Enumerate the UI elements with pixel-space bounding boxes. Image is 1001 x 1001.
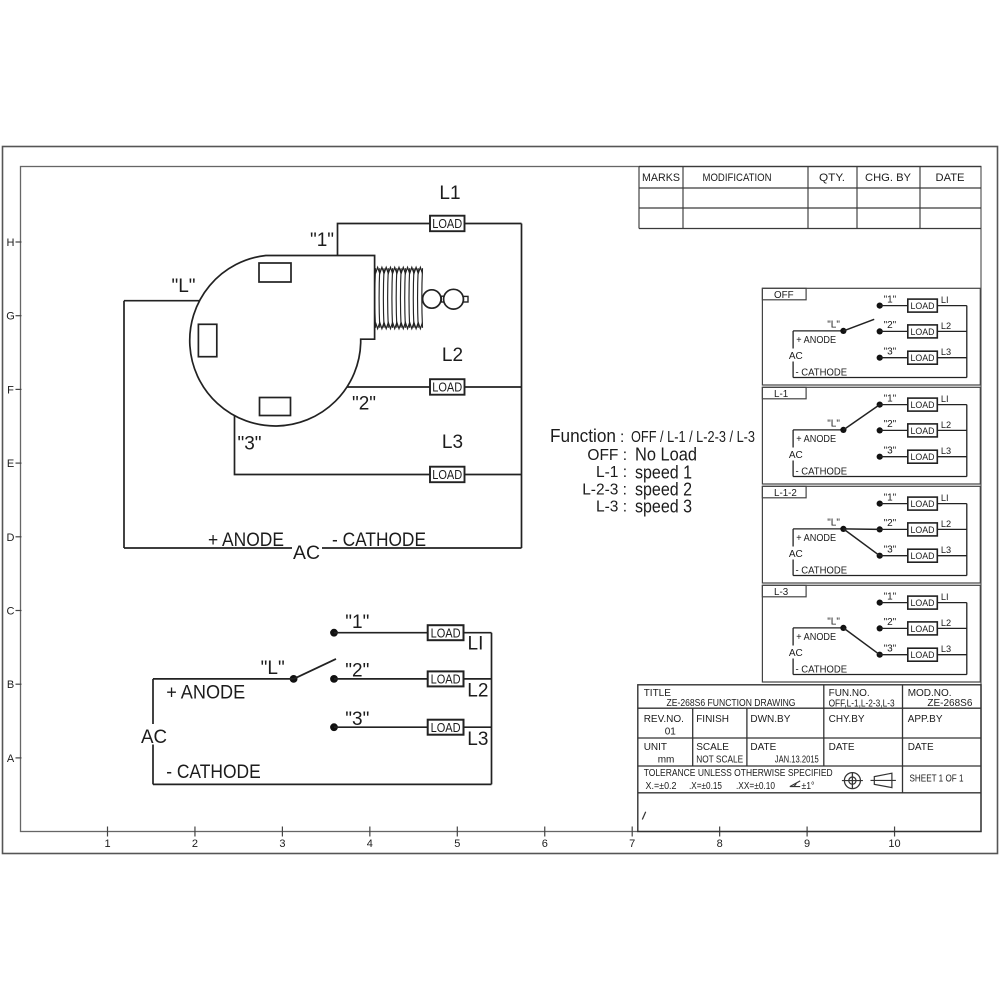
svg-text:LI: LI [941,493,949,503]
pull chain bead 2 [444,289,464,309]
label AC (main) [293,543,320,564]
panel L-3 : label "1" [884,591,897,602]
schematic: label L3 [467,729,488,750]
panel L-1-2 : wire load L3 to bus [937,555,967,557]
panel L-1-2 : load resistor L3 [908,549,938,562]
panel L-1 : wire load LI to bus [937,404,967,406]
panel L-1-2 : wire 3 to load [880,555,908,557]
svg-text:L-1: L-1 [774,389,788,400]
title block: UNIT cell [644,742,675,765]
svg-text:"3": "3" [884,545,897,556]
svg-text:ZE-268S6 FUNCTION DRAWING: ZE-268S6 FUNCTION DRAWING [667,698,796,709]
svg-text:L1: L1 [439,183,460,204]
revision table frame [639,167,981,229]
panel L-1-2 : label L3 [941,545,951,555]
wire: left vertical (anode side) [123,301,125,548]
svg-text:- CATHODE: - CATHODE [332,530,426,551]
function list text [550,426,755,517]
svg-text:- CATHODE: - CATHODE [796,367,848,378]
panel OFF : node L dot [840,328,846,334]
title block: REV.NO. cell [644,714,684,738]
schematic: label + ANODE [166,683,245,704]
panel L-1 : label "2" [884,419,897,430]
panel L-1-2 : wire load LI to bus [937,503,967,505]
wire load L1 to bus [465,223,522,225]
label L3 [442,432,463,453]
panel L-1-2 : label "1" [884,492,897,503]
panel L-1-2 : left wire lower [792,560,794,576]
angle tolerance symbol [790,781,800,787]
schematic: wire anode feed [153,678,294,680]
svg-text:FUN.NO.: FUN.NO. [829,688,870,699]
panel OFF : wire 2 to load [880,330,908,332]
panel OFF : wire 1 to load [880,305,908,307]
panel L-1 : wire load L3 to bus [937,456,967,458]
panel OFF : label "3" [884,347,897,358]
svg-text:LOAD: LOAD [911,598,935,609]
schematic: wire 2 to load [334,678,428,680]
panel L-1-2 : terminal 3 dot [877,553,883,559]
svg-text:LOAD: LOAD [432,380,462,395]
panel L-1 : label AC [789,450,803,461]
panel L-1-2 : label "2" [884,518,897,529]
panel L-1 : terminal 3 dot [877,454,883,460]
schematic: label "1" [345,612,369,633]
panel L-3 : load resistor LI [908,596,938,609]
panel OFF : switch arm [843,319,874,331]
svg-text:LOAD: LOAD [911,426,935,437]
svg-text:10: 10 [888,838,900,850]
svg-text:L2: L2 [467,681,488,702]
svg-text:L2: L2 [941,321,951,331]
svg-text:7: 7 [629,838,635,850]
panel L-1 : load resistor L2 [908,424,938,437]
wire: right bus (cathode return, main) [521,224,523,549]
panel L-3 : terminal 2 dot [877,625,883,631]
svg-text:+ ANODE: + ANODE [796,434,836,445]
title block: DATE cell (approved) [908,742,934,753]
svg-text:AC: AC [141,727,167,748]
svg-text:LOAD: LOAD [911,353,935,364]
label "2" [352,394,376,415]
svg-text:"2": "2" [884,518,897,529]
svg-text:01: 01 [665,727,677,738]
panel OFF : terminal 3 dot [877,355,883,361]
svg-text:±1°: ±1° [802,781,815,792]
state panel OFF : tab label [762,288,806,301]
svg-text:LOAD: LOAD [431,672,461,687]
panel L-1 : load resistor LI [908,398,938,411]
pull chain link [441,296,444,302]
svg-text:AC: AC [789,648,803,659]
svg-text:L-2-3 :: L-2-3 : [582,482,627,499]
svg-text:L3: L3 [941,446,951,456]
panel OFF : load resistor L2 [908,325,938,338]
svg-text:L-1-2: L-1-2 [774,488,797,499]
svg-text:LOAD: LOAD [911,525,935,536]
pull chain bead 1 [423,290,441,308]
panel OFF : bottom cathode wire [793,377,967,379]
threaded stem of switch [375,267,423,328]
svg-text:L2: L2 [941,618,951,628]
svg-text:A: A [7,753,15,765]
svg-text:LOAD: LOAD [432,216,462,231]
panel OFF : terminal 2 dot [877,328,883,334]
pull chain end nub [463,296,468,302]
svg-text:+ ANODE: + ANODE [796,335,836,346]
schematic: wire load L3 to bus [464,726,491,728]
panel OFF : label - CATHODE [796,367,848,378]
svg-text:DATE: DATE [908,742,934,753]
svg-text:"1": "1" [884,591,897,602]
svg-text:L-3: L-3 [774,587,789,598]
panel L-1 : left wire upper [792,430,794,448]
schematic: bottom cathode wire [153,783,492,785]
svg-text:1: 1 [104,838,110,850]
panel L-1 : label + ANODE [796,434,836,445]
svg-text:+ ANODE: + ANODE [166,683,245,704]
svg-text:SHEET 1 OF 1: SHEET 1 OF 1 [910,774,964,785]
panel OFF : load resistor LI [908,299,938,312]
svg-text:H: H [7,237,15,249]
panel L-3 : left wire lower [792,659,794,675]
panel OFF : load resistor L3 [908,351,938,364]
svg-text:FINISH: FINISH [696,714,729,725]
panel L-3 : switch arm [843,628,879,655]
svg-text:SCALE: SCALE [696,742,729,753]
svg-text:"2": "2" [884,617,897,628]
svg-text:4: 4 [367,838,373,850]
svg-text:L-3 :: L-3 : [596,499,627,516]
panel L-1 : label L3 [941,446,951,456]
panel L-3 : wire load L3 to bus [937,654,967,656]
svg-text:- CATHODE: - CATHODE [166,762,261,783]
wire terminal 3 to load L3 [235,415,431,474]
svg-text:"2": "2" [884,419,897,430]
panel L-3 : load resistor L3 [908,648,938,661]
svg-text:JAN.13.2015: JAN.13.2015 [775,754,819,765]
svg-text:LOAD: LOAD [911,624,935,635]
schematic: label "3" [345,709,369,730]
svg-text:8: 8 [717,838,723,850]
svg-text:"3": "3" [884,347,897,358]
state panel L-1-2 : tab label [762,486,806,499]
third angle projection symbol: target circle [842,772,863,789]
svg-text:LI: LI [941,394,949,404]
panel L-1-2 : label L2 [941,519,951,529]
schematic: left vertical wire lower [152,745,154,785]
svg-text:3: 3 [279,838,285,850]
svg-text:"3": "3" [884,644,897,655]
panel L-1-2 : terminal 1 dot [877,501,883,507]
svg-text:MODIFICATION: MODIFICATION [703,172,772,184]
panel L-1-2 : anode wire [793,528,843,530]
title block frame [638,685,981,832]
panel OFF : wire load L2 to bus [937,330,967,332]
svg-text:TOLERANCE UNLESS OTHERWISE SPE: TOLERANCE UNLESS OTHERWISE SPECIFIED [644,768,833,779]
panel L-1 : label LI [941,394,949,404]
panel L-1 : left wire lower [792,461,794,477]
svg-text:F: F [7,384,14,396]
panel L-1-2 : label - CATHODE [796,565,848,576]
svg-text:B: B [7,679,14,691]
svg-text:2: 2 [192,838,198,850]
panel L-1 : load resistor L3 [908,450,938,463]
svg-text:L3: L3 [442,432,463,453]
label L2 [442,345,463,366]
svg-text:"L": "L" [827,517,840,528]
title block: DATE cell (drawn) [750,742,819,765]
svg-text:L3: L3 [941,644,951,654]
panel L-3 : load resistor L2 [908,622,938,635]
load resistor LOAD (L1, main) [430,216,465,232]
panel OFF : left wire upper [792,331,794,349]
panel OFF : label AC [789,351,803,362]
svg-text:C: C [7,606,15,618]
panel L-3 : label "L" [827,616,840,627]
panel L-3 : label "3" [884,644,897,655]
title block: tolerance note [644,768,833,792]
schematic: label "2" [345,661,369,682]
svg-text:LI: LI [941,295,949,305]
svg-text:LOAD: LOAD [911,551,935,562]
panel L-1 : label "3" [884,446,897,457]
svg-text:5: 5 [454,838,460,850]
svg-text:DATE: DATE [750,742,776,753]
panel L-1 : node L dot [840,427,846,433]
panel OFF : left wire lower [792,362,794,378]
panel L-3 : label + ANODE [796,632,836,643]
title block: TITLE cell [644,688,796,709]
panel L-1 : wire load L2 to bus [937,429,967,431]
switch S1 body (pull-chain canopy outline) [190,256,375,426]
panel L-1 : terminal 1 dot [877,402,883,408]
panel L-1-2 : bottom cathode wire [793,575,967,577]
svg-text:Function: Function [550,426,616,446]
title block: APP.BY cell [908,714,943,725]
panel OFF : right bus wire [966,306,968,378]
panel OFF : label LI [941,295,949,305]
svg-text:OFF,L-1,L-2-3,L-3: OFF,L-1,L-2-3,L-3 [829,699,895,710]
panel L-3 : wire load LI to bus [937,602,967,604]
schematic: right bus wire [491,633,493,785]
svg-text:LOAD: LOAD [432,467,462,482]
title block: SCALE cell [696,742,743,765]
column zone labels 1..10 with ticks [104,827,900,851]
schematic: wire 3 to load [334,726,428,728]
svg-text:"L": "L" [827,319,840,330]
state panel L-1 : frame [762,387,980,484]
svg-text:AC: AC [293,543,320,564]
svg-text:.XX=±0.10: .XX=±0.10 [736,781,775,792]
panel OFF : terminal 1 dot [877,303,883,309]
svg-text:"2": "2" [884,320,897,331]
svg-text:LOAD: LOAD [431,625,461,640]
panel OFF : wire load L3 to bus [937,357,967,359]
label + ANODE (main) [208,530,284,551]
panel L-1 : label L2 [941,420,951,430]
svg-text:AC: AC [789,450,803,461]
title block: check slash mark [642,812,645,820]
panel L-3 : label L2 [941,618,951,628]
svg-text:LOAD: LOAD [911,499,935,510]
wire L : left feed to switch body [124,300,200,302]
label "L" [171,276,195,297]
state panel L-1 : tab label [762,387,806,400]
svg-text:mm: mm [658,754,675,765]
svg-text:X.=±0.2: X.=±0.2 [646,781,677,792]
schematic: load resistor L3 [428,720,464,735]
svg-text:LI: LI [468,634,484,655]
panel OFF : wire 3 to load [880,357,908,359]
panel L-3 : right bus wire [966,603,968,675]
panel L-1 : label - CATHODE [796,466,848,477]
svg-text:+ ANODE: + ANODE [208,530,284,551]
svg-text:"3": "3" [884,446,897,457]
schematic: node 1 terminal dot [330,629,338,637]
label "3" [237,434,261,455]
svg-text:G: G [6,311,15,323]
wire load L3 to bus [465,474,522,476]
panel OFF : label L3 [941,347,951,357]
svg-text:NOT SCALE: NOT SCALE [696,754,743,765]
svg-text:ZE-268S6: ZE-268S6 [927,698,972,709]
svg-text:L3: L3 [467,729,488,750]
panel OFF : wire load LI to bus [937,305,967,307]
svg-text:UNIT: UNIT [644,742,667,753]
schematic: left vertical wire upper [152,679,154,724]
panel L-3 : wire 1 to load [880,602,908,604]
svg-text:No Load: No Load [635,444,697,465]
title block: DATE cell (checked) [829,742,855,753]
svg-text:L2: L2 [941,519,951,529]
panel L-3 : node L dot [840,625,846,631]
panel L-1 : label "1" [884,393,897,404]
panel L-1 : bottom cathode wire [793,476,967,478]
panel L-1-2 : right bus wire [966,504,968,576]
svg-text:LOAD: LOAD [911,452,935,463]
panel L-1-2 : label "3" [884,545,897,556]
panel L-3 : label AC [789,648,803,659]
panel L-1 : wire 3 to load [880,456,908,458]
state panel L-3 : frame [762,585,980,682]
svg-text:+ ANODE: + ANODE [796,533,836,544]
panel L-1 : label "L" [827,418,840,429]
svg-text:MARKS: MARKS [642,172,680,184]
svg-text:speed 3: speed 3 [635,497,692,517]
svg-text:L2: L2 [941,420,951,430]
svg-text:"1": "1" [310,230,334,251]
panel OFF : label "2" [884,320,897,331]
title block: FINISH cell [696,714,729,725]
svg-text:DATE: DATE [936,172,965,184]
schematic: label L2 [467,681,488,702]
svg-text:LOAD: LOAD [911,650,935,661]
panel L-3 : wire 2 to load [880,627,908,629]
state panel L-1-2 : frame [762,486,980,583]
svg-text:"1": "1" [884,393,897,404]
wire: bottom AC run (right of AC label) [322,547,522,549]
panel OFF : anode wire [793,330,843,332]
svg-text:9: 9 [804,838,810,850]
svg-text:REV.NO.: REV.NO. [644,714,684,725]
svg-text:- CATHODE: - CATHODE [796,466,848,477]
svg-text:OFF :: OFF : [587,447,627,464]
outer sheet border [3,147,998,854]
svg-text:LOAD: LOAD [911,301,935,312]
svg-text:- CATHODE: - CATHODE [796,565,848,576]
schematic: node 3 terminal dot [330,723,338,731]
schematic: switch arm (OFF position) [294,659,336,679]
panel L-1 : right bus wire [966,405,968,477]
panel L-3 : wire load L2 to bus [937,627,967,629]
wire terminal 2 to load L2 [347,386,431,388]
panel L-3 : label LI [941,592,949,602]
schematic: wire load L2 to bus [464,678,491,680]
svg-text:"1": "1" [884,492,897,503]
schematic: label AC [141,727,167,748]
svg-text:L2: L2 [442,345,463,366]
schematic: wire 1 to load [334,632,428,634]
wire terminal 1 to load L1 [338,224,431,256]
terminal pad left (terminal L) [198,324,216,356]
title block: SHEET cell [910,774,964,785]
svg-text:- CATHODE: - CATHODE [796,664,848,675]
svg-text:"L": "L" [827,418,840,429]
svg-text:QTY.: QTY. [819,172,845,184]
schematic: common node L dot [290,675,298,683]
panel L-1 : wire 2 to load [880,429,908,431]
title block: CHY.BY cell [829,714,865,725]
load resistor LOAD (L3, main) [430,467,465,483]
svg-text:LOAD: LOAD [431,720,461,735]
terminal pad top (terminal 1) [259,263,291,282]
title block: MOD.NO. cell [908,688,973,709]
svg-text:"L": "L" [171,276,195,297]
svg-text:"1": "1" [884,294,897,305]
svg-text:L3: L3 [941,545,951,555]
state panel OFF : frame [762,288,980,385]
panel L-1-2 : label + ANODE [796,533,836,544]
panel L-3 : terminal 3 dot [877,652,883,658]
schematic: load resistor L2 [428,671,464,686]
svg-text:"1": "1" [345,612,369,633]
svg-text:LI: LI [941,592,949,602]
panel L-1 : wire 1 to load [880,404,908,406]
panel L-1 : terminal 2 dot [877,427,883,433]
schematic: label "L" [261,658,285,679]
schematic: label - CATHODE [166,762,261,783]
schematic: node 2 terminal dot [330,675,338,683]
load resistor LOAD (L2, main) [430,379,465,395]
panel OFF : label + ANODE [796,335,836,346]
svg-text:CHG. BY: CHG. BY [865,172,912,184]
svg-text:DWN.BY: DWN.BY [750,714,790,725]
terminal pad bottom (terminal 3) [260,398,291,416]
panel L-1 : switch arm [843,405,879,430]
schematic: wire load LI to bus [464,632,491,634]
title block: FUN.NO. cell [829,688,895,710]
panel OFF : label L2 [941,321,951,331]
panel L-1-2 : switch arm [843,529,879,556]
panel L-1-2 : node L dot [840,526,846,532]
wire load L2 to bus [465,386,522,388]
panel L-3 : anode wire [793,627,843,629]
third angle projection symbol: cone view [871,773,896,787]
wire: bottom AC run (left of AC label) [124,547,292,549]
panel L-1-2 : wire 2 to load [880,528,908,530]
panel L-1-2 : terminal 2 dot [877,526,883,532]
